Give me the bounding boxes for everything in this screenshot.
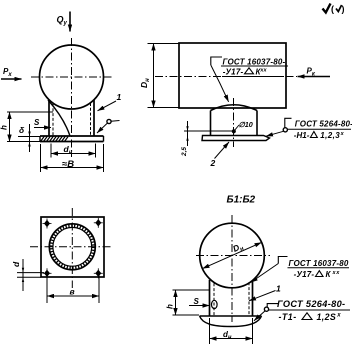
svg-text:h: h [166,304,175,309]
pipe rectangle [179,43,286,108]
weld callout 16037 bracket [211,57,222,65]
pipe inner circle [53,227,92,266]
pipe outer circle [49,224,95,270]
dim h extension top [173,289,210,291]
svg-text:S: S [194,297,200,306]
item 1 leader [98,101,117,111]
weld leader arrow [97,123,108,133]
svg-text:-Т1-: -Т1- [279,312,297,322]
hole dim line [22,259,24,291]
hole dim arrows [22,268,24,273]
drain hole leader [235,125,239,130]
hole dim extensions [17,272,44,274]
weld-all-around circle [107,119,111,123]
dim dn extension right [95,144,97,158]
dim h extension bottom [173,314,200,316]
ball diameter dim [203,242,262,268]
dim h extension top [7,111,53,113]
svg-text:ГОСТ 16037-80-: ГОСТ 16037-80- [223,57,286,66]
weld callout 16037 bracket BR [278,257,287,264]
load Px arrow [1,78,22,80]
flare top [200,315,262,317]
svg-text:h: h [0,125,9,130]
weld triangle [245,68,254,74]
svg-text:Qу: Qу [57,15,68,27]
dim dn extension right [252,318,254,344]
svg-text:Б1:Б2: Б1:Б2 [227,195,256,206]
weld callout 5264 leader BR [254,311,265,321]
dim Dn extension top [148,43,180,45]
vertical centerline [71,38,73,157]
weld callout 5264 shelf [288,128,352,130]
svg-text:в: в [70,287,75,297]
weld-all-around circle TR [283,128,287,132]
svg-text:-У17-: -У17- [223,67,244,76]
pipe left wall outer [209,280,211,316]
svg-text:S: S [34,118,40,127]
weld callout 16037 leader [211,65,229,102]
dim h extension bottom [7,141,40,143]
load Qy arrow [69,12,71,32]
svg-text:d: d [11,261,21,267]
plate thickness delta extension [18,136,40,138]
dim v extension left [46,275,48,303]
svg-text:dн: dн [223,330,232,341]
item 2 leader [215,142,230,159]
dim h line [175,290,177,315]
base plate top [40,135,104,137]
delta arrows [28,132,30,137]
svg-text:≈В: ≈В [62,159,74,170]
flare bowl [200,316,262,327]
base plate left end [39,136,41,142]
weld callout 5264 tick [285,118,292,128]
horizontal centerline [31,76,112,78]
base plate right end [103,136,105,142]
dim 2,5 arrows [186,126,188,131]
svg-text:2: 2 [210,158,216,168]
svg-text:ГОСТ 16037-80: ГОСТ 16037-80 [289,259,349,268]
svg-text:(: ( [331,4,334,14]
pipe centerline [155,76,297,78]
svg-text:1: 1 [117,92,122,102]
saddle centerline [233,98,235,147]
weld callout 5264 leader [266,131,284,136]
weld ring hatch [51,226,93,268]
load Pk arrow [298,76,331,78]
ball [200,223,265,288]
saddle plate [202,136,270,141]
svg-text:): ) [342,4,345,14]
weld-all-around circle BR [264,307,268,311]
svg-text:Рх: Рх [3,67,12,78]
gap reference line [184,130,233,132]
dim Dn line [153,44,155,108]
svg-text:δ: δ [19,125,25,135]
pipe left wall inner [52,104,54,137]
pipe right wall inner hidden [90,103,92,136]
dim B line [41,167,104,169]
saddle right side [256,111,258,136]
svg-text:-У17-: -У17- [294,270,315,279]
dim dn line [210,338,253,340]
saddle left side [210,111,212,136]
S arrow [34,127,51,129]
weld triangle BR1 [316,271,324,277]
dim B extension right [103,144,105,172]
svg-text:Dн: Dн [139,78,151,88]
horizontal centerline [196,255,270,257]
saddle dome arc [211,105,258,111]
weld triangle TR [310,132,317,138]
weld callout 16037 leader BR [251,264,278,283]
dim v line [47,295,99,297]
pipe right wall outer [93,100,95,136]
svg-text:Кхх: Кхх [256,67,268,76]
svg-text:ГОСТ 5264-80-: ГОСТ 5264-80- [295,119,352,128]
wall section ellipse [212,300,218,308]
svg-text:ГОСТ 5264-80-: ГОСТ 5264-80- [277,299,345,309]
weld callout 5264 shelf BR [269,309,350,311]
ball surface inside socket [48,100,70,136]
wall S arrow [189,305,210,307]
pipe right wall outer [252,280,254,315]
bolt hole TR [94,218,103,228]
svg-text:Кхх: Кхх [326,270,341,279]
svg-text:∅10: ∅10 [239,120,253,129]
dim v extension right [98,275,100,303]
weld callout 5264 tick BR [267,304,278,308]
bolt hole BL [43,268,52,278]
weld callout 16037 shelf [221,65,288,67]
plate plan square [41,217,104,277]
callout underline [222,76,284,78]
pipe left wall outer [48,100,50,136]
plate section hatch [41,136,69,142]
delta dim line [29,124,31,152]
svg-text:2,5: 2,5 [181,147,188,157]
svg-text:-Н1-: -Н1- [294,131,310,140]
base plate bottom [40,141,104,143]
dim dn line [51,153,96,155]
svg-text:1,2Sх: 1,2Sх [317,312,342,322]
pipe right wall inner [248,282,250,315]
bolt hole TL [43,219,52,229]
dim h line [9,112,11,142]
horizontal centerline [30,246,112,248]
dim 2,5 line [187,121,189,146]
dim B extension left [40,144,42,172]
weld callout 16037 shelf BR [288,267,350,269]
roughness mark [323,4,331,13]
weld leader tail [111,120,120,123]
svg-text:1: 1 [276,284,281,294]
bolt hole BR [94,268,103,278]
vertical centerline [71,208,73,288]
ball [40,45,104,109]
dim Dn extension bottom [148,107,180,109]
vertical centerline [231,215,233,322]
weld triangle BR2 [302,313,312,320]
item 1 leader [249,291,276,301]
dim dn extension left [209,318,211,344]
drain hole dot [232,129,236,133]
pipe left wall inner [213,283,215,315]
svg-text:1,2,3х: 1,2,3х [320,131,344,140]
dim dn extension left [50,144,52,158]
